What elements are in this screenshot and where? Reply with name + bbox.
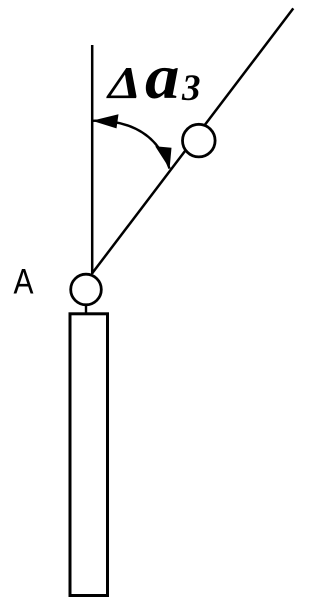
- arrowhead left: [92, 114, 119, 128]
- wire vertical reference line: [91, 45, 94, 274]
- arrowhead right: [155, 146, 171, 168]
- svg-text:3: 3: [181, 68, 201, 109]
- svg-text:Δ: Δ: [106, 57, 141, 108]
- angle arc: [92, 121, 170, 169]
- wire stub circle to rectangle: [85, 305, 87, 313]
- joint circle on diagonal link: [183, 124, 216, 157]
- link rectangle: [70, 314, 108, 596]
- wire diagonal link line: [92, 8, 293, 273]
- pivot circle A: [71, 274, 102, 305]
- svg-text:a: a: [145, 41, 180, 112]
- svg-text:A: A: [14, 263, 35, 302]
